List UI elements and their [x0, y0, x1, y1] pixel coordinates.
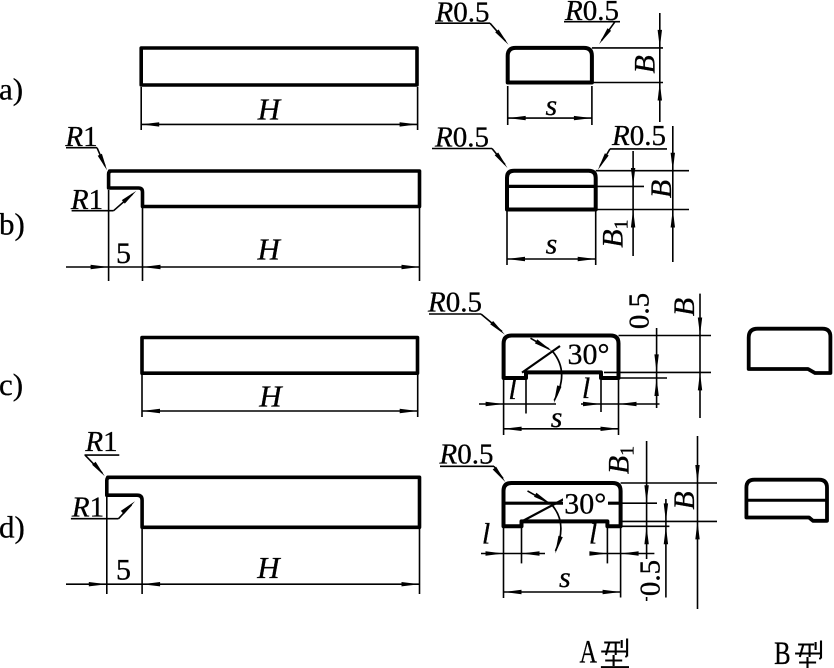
row b label H: [257, 232, 282, 267]
row b dimension s line: [507, 257, 596, 261]
row a label B: [629, 55, 662, 73]
row d B-type section step line: [746, 499, 827, 502]
row b dimension B1 line: [631, 151, 635, 256]
svg-text:B: B: [774, 636, 791, 668]
row c dimension l left: [479, 402, 556, 406]
row d leader R1 lower: [71, 492, 135, 524]
row b leader R1 upper: [64, 121, 107, 170]
row d leader R1 upper: [84, 426, 119, 476]
row b label s: [546, 228, 558, 261]
row c dimension H line: [142, 409, 418, 413]
row d label l right: [589, 518, 597, 551]
row c section outline: [504, 336, 619, 379]
label A-type: [580, 635, 629, 668]
row d section step extension: [621, 502, 657, 504]
row d label s: [559, 561, 571, 594]
svg-text:H: H: [256, 550, 281, 585]
svg-text:H: H: [257, 92, 282, 127]
row d dimension line 5/H: [66, 582, 420, 586]
row c label s: [551, 401, 563, 434]
row d l extension lines: [504, 523, 621, 598]
row d section outline: [504, 483, 621, 526]
row c label H: [258, 378, 283, 413]
svg-text:5: 5: [116, 237, 131, 270]
svg-text:R1: R1: [84, 426, 117, 458]
row a s extension lines: [508, 86, 592, 125]
row b section step line: [507, 185, 596, 188]
svg-text:H: H: [258, 378, 283, 413]
row d label B: [668, 491, 701, 509]
row b section top extension: [596, 170, 689, 172]
svg-text:l: l: [508, 373, 516, 406]
svg-text:d): d): [0, 510, 25, 545]
label B-type: [774, 636, 823, 668]
svg-text:s: s: [551, 401, 563, 434]
row b bar profile: [109, 171, 420, 207]
svg-text:B: B: [645, 180, 678, 198]
svg-text:0.5: 0.5: [635, 560, 667, 596]
label a): [0, 71, 23, 106]
row d dimension l right: [589, 551, 654, 555]
row c dimension 0.5 line: [654, 328, 658, 408]
row d section bottom extension: [621, 525, 670, 527]
svg-text:5: 5: [116, 553, 131, 586]
row b section step extension: [596, 185, 644, 187]
row c bevel edge 30deg: [522, 346, 560, 373]
row c l extension lines: [504, 374, 619, 435]
svg-text:B: B: [629, 55, 662, 73]
row c label 0.5: [624, 293, 656, 329]
row b dim extension lines: [109, 190, 420, 281]
row d angle arc: [552, 505, 563, 554]
row b label 5: [116, 237, 131, 270]
row d dimension B line: [695, 436, 699, 609]
row b leader R0.5 left: [432, 122, 508, 169]
row d bar profile: [107, 477, 420, 527]
row d label H: [256, 550, 281, 585]
row c section bottom extension: [619, 377, 668, 379]
row c label 30deg: [568, 338, 610, 371]
svg-text:a): a): [0, 71, 23, 106]
row d bevel edge 30deg: [522, 499, 565, 522]
row a leader R0.5 right: [564, 0, 620, 44]
svg-text:30°: 30°: [568, 338, 610, 371]
row d angle leader arrow: [528, 491, 552, 505]
svg-text:R0.5: R0.5: [435, 0, 490, 29]
svg-text:B: B: [668, 298, 701, 316]
row b leader R0.5 right: [598, 120, 667, 170]
row d section mid extension: [621, 520, 717, 522]
row d B-type section outline: [746, 480, 827, 521]
row c leader R0.5: [427, 287, 505, 335]
svg-text:s: s: [559, 561, 571, 594]
svg-text:l: l: [482, 518, 490, 551]
row d label l left: [482, 518, 490, 551]
row c B-type section outline: [749, 329, 831, 373]
svg-text:b): b): [0, 207, 25, 242]
row c dimension s line: [504, 427, 619, 431]
svg-text:R0.5: R0.5: [564, 0, 619, 27]
row c dimension B line: [698, 294, 702, 418]
row d label B1: [603, 446, 639, 474]
row c label l right: [582, 372, 590, 405]
row d dim extension lines: [107, 497, 420, 594]
row d section step line: [504, 502, 621, 505]
row c label l left: [508, 373, 516, 406]
row b label B: [645, 180, 678, 198]
row b section bottom extension: [596, 209, 689, 211]
row d label 0.5: [635, 559, 667, 597]
row c angle leader arrow: [531, 338, 553, 351]
row b s extension lines: [507, 211, 596, 265]
row a dimension s line: [508, 116, 592, 120]
row a dimension B line: [658, 13, 662, 122]
row d leader R0.5: [439, 439, 506, 483]
row a dimension H line: [141, 122, 417, 126]
row a leader R0.5 left: [435, 0, 509, 45]
row c dimension l right: [581, 402, 660, 406]
svg-text:30°: 30°: [564, 488, 606, 521]
row d dimension l left: [481, 551, 545, 555]
svg-text:R0.5: R0.5: [611, 120, 666, 152]
row d section top extension: [621, 482, 717, 484]
row b dimension line 5/H: [66, 265, 420, 269]
row c bar profile: [142, 338, 418, 374]
row a label H: [257, 92, 282, 127]
row b dimension B line: [671, 126, 675, 262]
row a section bottom extension: [592, 82, 663, 84]
row d dimension 0.5 line: [664, 499, 668, 598]
row b leader R1 lower: [70, 184, 136, 216]
row a label s: [545, 89, 557, 122]
row a section top extension: [592, 47, 663, 49]
row c section top extension: [619, 335, 712, 337]
svg-text:c): c): [0, 367, 23, 402]
svg-text:l: l: [589, 518, 597, 551]
row c label B: [668, 298, 701, 316]
row a H extension lines: [141, 87, 417, 130]
row c section mid extension: [604, 371, 711, 373]
label b): [0, 207, 25, 242]
svg-text:H: H: [257, 232, 282, 267]
label c): [0, 367, 23, 402]
row c angle arc: [552, 351, 561, 403]
row d label 5: [116, 553, 131, 586]
svg-text:l: l: [582, 372, 590, 405]
row d dimension B1 line: [644, 441, 648, 601]
svg-text:s: s: [546, 228, 558, 261]
row b label B1: [597, 219, 633, 247]
row d label 30deg: [563, 488, 608, 521]
label d): [0, 510, 25, 545]
svg-text:A: A: [580, 635, 598, 668]
row d dimension s line: [504, 590, 621, 594]
row b section outline: [507, 171, 596, 210]
svg-text:B: B: [668, 491, 701, 509]
row c H extension lines: [142, 375, 418, 417]
row a section outline: [508, 48, 592, 83]
row a bar profile: [141, 48, 417, 85]
svg-text:s: s: [545, 89, 557, 122]
svg-text:0.5: 0.5: [624, 293, 656, 329]
